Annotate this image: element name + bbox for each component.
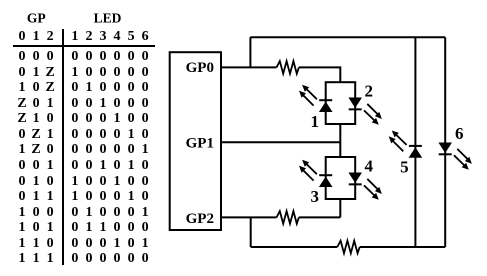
- wire GP2 node to bottom rail: [250, 217, 252, 247]
- svg-text:2: 2: [365, 82, 374, 101]
- svg-text:1: 1: [311, 112, 320, 131]
- svg-text:4: 4: [365, 157, 374, 176]
- svg-text:GP1: GP1: [186, 135, 214, 151]
- svg-text:GP2: GP2: [186, 211, 214, 227]
- LED D5: [389, 131, 423, 158]
- wire GP0 pin to resistor R1: [221, 66, 277, 68]
- wire LED5 branch vertical: [414, 37, 416, 247]
- wire GP2 pin to resistor R2: [221, 216, 277, 218]
- wire GP1 pin to centre node: [221, 141, 340, 143]
- truth table vertical divider: [62, 29, 64, 265]
- truth table header rule: [13, 45, 155, 47]
- resistor R2: [277, 211, 299, 224]
- IC U1 (GPIO port box): [170, 52, 221, 230]
- LED D1: [299, 85, 333, 112]
- LED D4: [348, 173, 382, 200]
- wire LED pair 1/2 bottom to LED pair 3/4 top (crosses GP1 wire): [339, 124, 341, 157]
- wire LED6 branch vertical (right rail): [444, 37, 446, 247]
- wire R1 to LED pair 1/2 top node: [299, 67, 340, 82]
- resistor R1: [277, 61, 299, 74]
- LED D6: [438, 143, 472, 170]
- truth table column numbers GP 0 1 2: [15, 30, 57, 44]
- LED pair 3/4 loop: [326, 157, 356, 199]
- truth table column numbers LED 1..6: [68, 30, 152, 44]
- wire bottom rail left of R3: [251, 246, 338, 248]
- svg-text:GP0: GP0: [186, 60, 214, 76]
- truth table LED data rows: [68, 50, 152, 64]
- svg-text:3: 3: [311, 187, 320, 206]
- wire GP0 node to top rail: [249, 37, 251, 67]
- LED D2: [348, 98, 382, 125]
- truth table header LED: [94, 11, 122, 25]
- wire top rail: [250, 36, 445, 38]
- truth table header GP: [27, 11, 46, 25]
- LED pair 1/2 loop: [326, 82, 356, 124]
- wire LED pair 3/4 bottom to GP2 wire: [339, 199, 341, 217]
- truth table GP data rows: [15, 50, 57, 64]
- resistor R3: [337, 241, 359, 254]
- svg-text:5: 5: [400, 157, 409, 176]
- svg-text:6: 6: [455, 124, 464, 143]
- wire bottom rail right of R3: [360, 246, 446, 248]
- LED D3: [299, 160, 333, 187]
- wire R2 to LED pair 3/4 bottom node: [299, 216, 340, 218]
